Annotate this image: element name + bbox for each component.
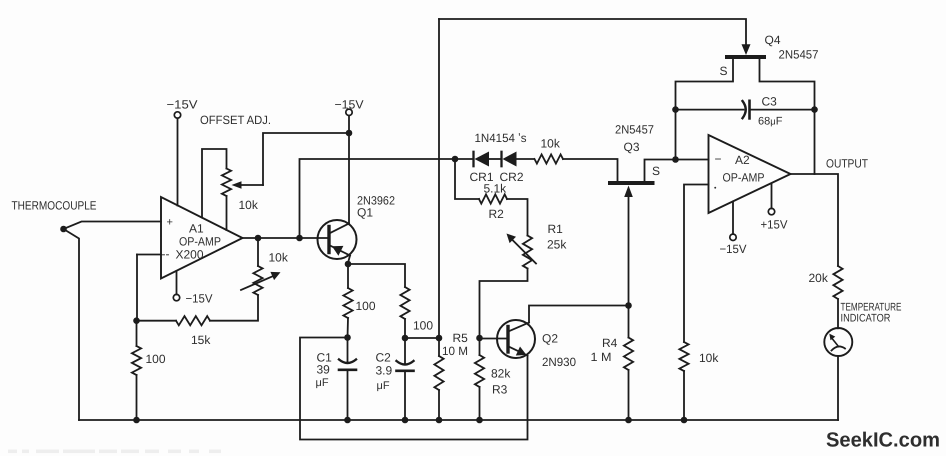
- label R1 value 25k: [547, 238, 567, 252]
- power -15V terminal (A2): [730, 234, 736, 240]
- svg-text:R3: R3: [492, 383, 508, 397]
- svg-text:--: --: [162, 247, 170, 261]
- wire R2 to R1 top: [507, 199, 528, 236]
- label -15V (A1 top): [167, 98, 198, 112]
- label 10k (gain pot): [269, 251, 289, 265]
- svg-text:μF: μF: [316, 377, 329, 389]
- node R3 bottom rail: [476, 417, 483, 424]
- arrow of gain pot: [241, 272, 281, 290]
- label +15V (A2): [761, 218, 788, 232]
- wire -15V terminal to offset node: [348, 116, 350, 133]
- node R5 top: [436, 335, 443, 342]
- svg-text:2N5457: 2N5457: [615, 123, 654, 137]
- wire offset pot loop to A1 top pin: [202, 149, 227, 218]
- resistor R3 82k: [475, 355, 484, 387]
- svg-text:−15V: −15V: [335, 98, 364, 112]
- label C3 value 68uF: [758, 116, 783, 128]
- power -15V terminal (Q1 top): [346, 109, 352, 115]
- wire right 100 to C2 node: [404, 319, 406, 338]
- svg-text:−: −: [715, 152, 722, 166]
- svg-text:10k: 10k: [269, 251, 289, 265]
- label C2 value 3.9: [376, 364, 393, 378]
- op-amp A1: [161, 197, 243, 279]
- label 2N5457 (Q3): [615, 123, 654, 137]
- svg-text:Q3: Q3: [624, 140, 640, 154]
- wire between CR1 and CR2: [489, 158, 502, 160]
- svg-text:R1: R1: [548, 222, 564, 236]
- wire feedback node to 15k: [137, 320, 177, 322]
- label R2 value 5.1k: [484, 182, 508, 196]
- svg-text:100: 100: [146, 352, 166, 366]
- svg-text:C2: C2: [376, 351, 392, 365]
- capacitor C1 39uF: [339, 338, 356, 421]
- label CR1: [470, 170, 494, 184]
- wire Q2 base stub: [480, 338, 507, 340]
- node 10k bias bottom rail: [681, 417, 688, 424]
- transistor Q1 2N3962: [318, 220, 357, 263]
- wire 10k to Q3 drain: [563, 159, 618, 181]
- resistor 100 (Q1 right): [400, 287, 409, 319]
- label A2: [735, 153, 750, 167]
- op-amp A2: [709, 135, 791, 213]
- svg-text:39: 39: [317, 363, 331, 377]
- node C1 bottom rail: [344, 417, 351, 424]
- wire Q1 emitter to left 100: [347, 264, 349, 288]
- power -15V terminal (A1 bottom): [173, 294, 179, 300]
- label 2N5457 (Q4): [779, 48, 819, 62]
- node C2 bottom rail: [402, 417, 409, 424]
- label R4: [602, 336, 618, 350]
- wire -15V supply to A1 top: [177, 118, 179, 205]
- svg-text:−15V: −15V: [720, 242, 747, 256]
- wire gain pot bottom to 15k: [210, 295, 258, 321]
- node C1 top: [344, 334, 351, 341]
- node 100 / bottom rail: [133, 417, 140, 424]
- svg-text:Q1: Q1: [357, 206, 373, 220]
- wire R5 column vertical: [438, 19, 440, 338]
- svg-text:INDICATOR: INDICATOR: [841, 313, 891, 325]
- svg-text:5.1k: 5.1k: [484, 182, 508, 196]
- label INDICATOR: [841, 313, 891, 325]
- wire A1 - input down to feedback node: [136, 255, 138, 321]
- svg-text:+15V: +15V: [761, 218, 788, 232]
- resistor 100 (Q1 left): [343, 288, 352, 318]
- label Q1: [357, 206, 373, 220]
- svg-text:3.9: 3.9: [376, 364, 393, 378]
- label 10k (A2 bias): [699, 351, 719, 365]
- svg-text:1 M: 1 M: [591, 350, 612, 364]
- label -15V (A1 bottom): [186, 292, 213, 306]
- wire top rail from R5 column to Q4 gate: [439, 19, 746, 45]
- wire offset pot bottom to A1 top edge: [226, 196, 228, 230]
- svg-text:10k: 10k: [699, 351, 719, 365]
- svg-text:10k: 10k: [541, 137, 561, 151]
- wire Q2 collector to R4 node: [529, 306, 629, 323]
- wire Q2 base node to 82k: [479, 338, 481, 355]
- label OFFSET ADJ.: [200, 113, 271, 127]
- svg-text:OFFSET ADJ.: OFFSET ADJ.: [200, 113, 271, 127]
- node A1 output: [255, 235, 262, 242]
- capacitor C2 3.9uF: [397, 338, 414, 420]
- wire output tap up and right to diode net: [300, 159, 456, 238]
- label TEMPERATURE: [841, 302, 902, 314]
- wire A2 + input from 10k column: [684, 185, 709, 343]
- resistor 20k: [833, 266, 842, 299]
- wire 20k to meter: [837, 299, 839, 328]
- svg-text:68μF: 68μF: [758, 116, 783, 128]
- wire R1 bottom to Q2 base node: [480, 269, 528, 338]
- svg-text:Q4: Q4: [765, 33, 781, 47]
- label OUTPUT: [826, 157, 869, 171]
- label 20k: [809, 271, 829, 285]
- label 100 (Q1 left): [356, 299, 376, 313]
- label 100 (input shunt): [146, 352, 166, 366]
- label A2 - input marker: [715, 152, 722, 166]
- svg-text:82k: 82k: [491, 367, 511, 381]
- wire left 100 to C1 node: [347, 318, 350, 338]
- label R5: [453, 331, 469, 345]
- potentiometer R1 25k: [507, 234, 537, 269]
- wire CR2 to 10k: [517, 158, 535, 160]
- svg-text:1N4154 ʼs: 1N4154 ʼs: [475, 131, 527, 145]
- label -15V (Q1): [335, 98, 364, 112]
- svg-text:25k: 25k: [547, 238, 567, 252]
- node R4 top / Q3 gate node: [625, 302, 632, 309]
- faint cropped caption text: [8, 450, 221, 454]
- label A1 gain X200: [176, 248, 204, 262]
- resistor R2 5.1k: [479, 194, 507, 203]
- label R1: [548, 222, 564, 236]
- wire R4 node to resistor: [628, 306, 630, 338]
- wire C3 left down to A2 - input: [675, 110, 677, 160]
- node C2 top: [402, 335, 409, 342]
- wire 100 to ground rail: [136, 375, 138, 420]
- node A1 feedback node: [133, 317, 140, 324]
- label R4 value 1 M: [591, 350, 612, 364]
- label C2: [376, 351, 392, 365]
- label A1 - input marker: [162, 247, 170, 261]
- wire Q4 drain to C3 right: [760, 57, 815, 110]
- label Q3: [624, 140, 640, 154]
- transistor Q3 2N5457 JFET: [610, 183, 653, 306]
- transistor Q4 2N5457 JFET: [727, 44, 764, 57]
- svg-text:C3: C3: [762, 95, 778, 109]
- label R5 value 10 M: [442, 344, 468, 358]
- wire feedback node to 100: [136, 321, 138, 346]
- label 10k (series): [541, 137, 561, 151]
- wire R5 to bottom rail: [438, 390, 440, 420]
- wire bottom ground rail: [79, 419, 838, 421]
- meter temperature indicator: [824, 328, 852, 356]
- label A1 + input marker: [167, 217, 173, 229]
- wire diode net segment: [455, 158, 474, 160]
- label 15k: [191, 333, 211, 347]
- transistor Q2 2N930: [497, 320, 535, 358]
- wire thermocouple lower lead down left rail: [64, 229, 80, 420]
- svg-text:A1: A1: [189, 222, 204, 236]
- label 1N4154 's: [475, 131, 527, 145]
- wire A1 bottom pin to -15V: [176, 271, 178, 294]
- label C2 uF: [377, 380, 390, 392]
- svg-text:OP-AMP: OP-AMP: [723, 171, 765, 185]
- wire 82k to bottom rail: [479, 387, 481, 420]
- svg-text:−15V: −15V: [186, 292, 213, 306]
- wire -15V node down to Q1 collector: [348, 133, 350, 224]
- label S (Q3 source): [652, 164, 660, 178]
- capacitor C3 68uF: [676, 101, 815, 119]
- svg-text:10k: 10k: [239, 198, 259, 212]
- label C1 uF: [316, 377, 329, 389]
- svg-text:100: 100: [413, 319, 433, 333]
- node Q2 base: [476, 335, 483, 342]
- svg-text:A2: A2: [735, 153, 750, 167]
- svg-text:SeekIC.com: SeekIC.com: [826, 429, 940, 452]
- svg-text:THERMOCOUPLE: THERMOCOUPLE: [12, 199, 97, 213]
- label A2 + input marker: [714, 185, 717, 192]
- wire Q4 source to C3 left: [676, 57, 734, 110]
- wire Q3 source to A2 - input: [645, 160, 709, 182]
- node diode net left: [452, 156, 459, 163]
- wire C1 loop to Q2 emitter: [300, 338, 528, 440]
- label CR2: [500, 170, 524, 184]
- svg-text:R2: R2: [489, 207, 505, 221]
- svg-text:−15V: −15V: [167, 98, 198, 112]
- wire Q1 emitter to right 100: [348, 264, 405, 287]
- label S (Q4 source): [720, 64, 728, 78]
- diode CR1 1N4154: [474, 152, 490, 167]
- resistor R4 1M: [624, 338, 633, 371]
- label R3: [492, 383, 508, 397]
- svg-text:R5: R5: [453, 331, 469, 345]
- resistor 15k: [176, 316, 210, 325]
- wire R5 node to resistor: [438, 338, 440, 356]
- resistor 100 (input shunt): [132, 346, 141, 375]
- svg-text:S: S: [720, 64, 728, 78]
- svg-text:10 M: 10 M: [442, 344, 468, 358]
- wiper arrow of offset pot: [232, 181, 264, 189]
- wire R4 to bottom rail: [628, 370, 630, 420]
- svg-text:S: S: [652, 164, 660, 178]
- label R2: [489, 207, 505, 221]
- label 2N3962: [357, 194, 395, 208]
- resistor offset pot 10k: [222, 169, 231, 197]
- wire A1 - input stub: [137, 254, 161, 256]
- wire A1 output down to gain pot: [257, 238, 259, 266]
- power +15V terminal (A2): [768, 208, 774, 214]
- svg-text:X200: X200: [176, 248, 204, 262]
- label A2 OP-AMP: [723, 171, 765, 185]
- wire A2 output: [791, 174, 839, 266]
- diode CR2 1N4154: [502, 152, 517, 167]
- node A2 - input / C3 left: [672, 156, 679, 163]
- label C3: [762, 95, 778, 109]
- resistor 10k (series): [535, 154, 564, 163]
- power -15V terminal (A1 top): [174, 112, 180, 118]
- label A1 OP-AMP: [179, 235, 221, 249]
- label 2N930: [542, 355, 576, 369]
- label 100 (Q1 right): [413, 319, 433, 333]
- node C3 left: [672, 106, 679, 113]
- svg-text:20k: 20k: [809, 271, 829, 285]
- wire A2 to -15V: [732, 202, 734, 235]
- svg-text:2N5457: 2N5457: [779, 48, 819, 62]
- wire C3 right down to output: [814, 110, 816, 174]
- wire diode node down to R2: [455, 159, 479, 199]
- node offset/-15V junction: [346, 130, 353, 137]
- wire thermocouple upper lead to A1 + input: [64, 222, 162, 230]
- label -15V (A2): [720, 242, 747, 256]
- label R3 value 82k: [491, 367, 511, 381]
- label THERMOCOUPLE: [12, 199, 97, 213]
- wire A2 to +15V: [771, 184, 773, 209]
- svg-text:OUTPUT: OUTPUT: [826, 157, 869, 171]
- label A1: [189, 222, 204, 236]
- node Q1 emitter: [345, 261, 352, 268]
- svg-text:+: +: [167, 217, 173, 229]
- svg-text:2N930: 2N930: [542, 355, 576, 369]
- node A1 output / feedback tap: [296, 235, 303, 242]
- svg-text:OP-AMP: OP-AMP: [179, 235, 221, 249]
- node R4 bottom rail: [625, 417, 632, 424]
- svg-text:R4: R4: [602, 336, 618, 350]
- label C1 value 39: [317, 363, 331, 377]
- resistor R5 10M: [434, 356, 443, 390]
- resistor gain pot 10k: [253, 266, 262, 295]
- wire 10k bias to bottom rail: [683, 371, 685, 420]
- svg-text:100: 100: [356, 299, 376, 313]
- label Q4: [765, 33, 781, 47]
- node C3 right: [811, 106, 818, 113]
- label Q2: [542, 332, 558, 346]
- wire A1 output to Q1 base: [243, 237, 328, 239]
- resistor 10k (A2 + bias): [679, 342, 688, 371]
- svg-text:15k: 15k: [191, 333, 211, 347]
- label C1: [317, 351, 333, 365]
- wire meter to bottom rail: [837, 356, 839, 420]
- wire C2 node to R5 node: [405, 337, 439, 339]
- node thermocouple junction: [60, 226, 67, 233]
- node R5 bottom rail: [436, 417, 443, 424]
- svg-text:μF: μF: [377, 380, 390, 392]
- wire offset wiper to -15V node: [263, 133, 349, 185]
- label 10k (offset pot): [239, 198, 259, 212]
- svg-text:Q2: Q2: [542, 332, 558, 346]
- watermark SeekIC.com: [826, 429, 940, 452]
